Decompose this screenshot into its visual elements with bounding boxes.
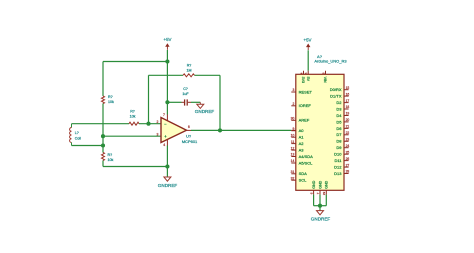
- svg-text:15: 15: [346, 86, 350, 90]
- svg-text:+5V: +5V: [304, 38, 312, 43]
- svg-text:10k: 10k: [130, 115, 136, 119]
- svg-text:10: 10: [291, 133, 295, 137]
- wire gnd left leg: [313, 195, 315, 206]
- svg-text:RESET: RESET: [299, 89, 313, 94]
- svg-text:26: 26: [346, 157, 350, 161]
- pin A2 (11) left: [291, 140, 304, 146]
- pin D8 (23) right: [336, 137, 349, 143]
- svg-text:D10: D10: [334, 152, 342, 157]
- svg-text:20: 20: [346, 118, 350, 122]
- svg-text:GNDREF: GNDREF: [311, 217, 331, 222]
- svg-text:3: 3: [157, 133, 159, 137]
- wire op-amp V- to gnd rail: [166, 146, 168, 167]
- feedback right leg wire down to output: [219, 75, 221, 130]
- svg-text:R?: R?: [108, 95, 113, 99]
- svg-text:21: 21: [346, 125, 350, 129]
- svg-text:4: 4: [163, 143, 165, 147]
- svg-text:23: 23: [346, 137, 350, 141]
- svg-text:10k: 10k: [108, 100, 114, 104]
- svg-text:3V3: 3V3: [301, 77, 305, 83]
- svg-text:GND: GND: [312, 180, 316, 188]
- svg-text:D9: D9: [336, 145, 342, 150]
- wire feedback top left segment: [149, 74, 184, 76]
- svg-text:U?: U?: [186, 134, 192, 139]
- power +5V (arduino): [304, 38, 312, 51]
- wire R to inverting node: [139, 123, 161, 125]
- wire +5V to top rail junction: [166, 50, 168, 62]
- svg-text:11: 11: [291, 140, 295, 144]
- wire feedback top right segment: [195, 74, 221, 76]
- svg-text:22: 22: [346, 131, 350, 135]
- svg-text:Arduino_UNO_R3: Arduino_UNO_R3: [314, 59, 347, 64]
- wire top horizontal to divider: [103, 61, 167, 63]
- pin A4/SDA (13) left: [291, 153, 314, 159]
- svg-text:32: 32: [291, 176, 295, 180]
- wire divider column upper: [102, 62, 104, 97]
- svg-text:MCP601: MCP601: [182, 139, 198, 144]
- pin D5 (20) right: [336, 118, 349, 124]
- junction gnd rail: [165, 164, 169, 168]
- pin AREF (30) left: [291, 117, 310, 123]
- pin 6 (output) stub: [187, 129, 192, 131]
- svg-text:7: 7: [163, 113, 165, 117]
- pin D6 (21) right: [336, 125, 349, 131]
- svg-text:D12: D12: [334, 164, 342, 169]
- feedback left leg wire: [148, 75, 150, 123]
- svg-text:D5: D5: [336, 119, 342, 124]
- svg-text:A0: A0: [299, 128, 305, 133]
- pin A3 (12) left: [291, 146, 305, 152]
- svg-text:+5V: +5V: [164, 37, 172, 42]
- svg-text:A5/SCL: A5/SCL: [299, 160, 314, 165]
- pin D11 (26) right: [334, 157, 349, 163]
- resistor R? 10k (upper divider): [102, 95, 114, 104]
- junction coil bottom: [101, 143, 105, 147]
- pin A0 (9) left: [291, 127, 304, 133]
- pin D9 (24) right: [336, 144, 349, 150]
- svg-text:10k: 10k: [108, 158, 114, 162]
- pin RESET (3) left: [291, 88, 312, 94]
- wire divider middle: [102, 104, 104, 146]
- svg-text:31: 31: [291, 170, 295, 174]
- ground GNDREF (arduino): [311, 211, 331, 222]
- svg-text:12: 12: [291, 146, 295, 150]
- svg-text:VIN: VIN: [323, 77, 327, 83]
- svg-text:27: 27: [346, 163, 350, 167]
- wire divider node to lower resistor: [102, 146, 104, 153]
- wire bottom gnd horizontal: [103, 166, 167, 168]
- IC A? Arduino_UNO_R3 body: [296, 74, 344, 190]
- svg-text:16: 16: [346, 92, 350, 96]
- svg-text:25: 25: [346, 150, 350, 154]
- power +5V (left): [164, 37, 172, 50]
- pin D12 (27) right: [334, 163, 349, 169]
- pin GND (7) bottom: [316, 180, 323, 194]
- pin SDA (31) left: [291, 170, 308, 176]
- wire gnd right leg: [325, 195, 327, 206]
- svg-text:A4/SDA: A4/SDA: [299, 154, 314, 159]
- svg-text:18: 18: [346, 105, 350, 109]
- pin D3 (18) right: [336, 105, 349, 111]
- svg-text:6: 6: [188, 125, 190, 129]
- wire coil top toward R (inverting path): [72, 123, 130, 125]
- svg-text:D1/TX: D1/TX: [330, 94, 342, 99]
- svg-text:5V: 5V: [306, 77, 310, 82]
- node divider mid (junction to op-amp +): [101, 134, 105, 138]
- svg-text:AREF: AREF: [299, 118, 310, 123]
- svg-text:14: 14: [291, 159, 295, 163]
- junction rail / decoupling cap: [165, 100, 169, 104]
- wire lower divider to gnd rail: [102, 161, 104, 167]
- svg-text:R?: R?: [130, 109, 135, 113]
- svg-text:R?: R?: [187, 63, 192, 67]
- wire rail to cap: [167, 101, 181, 103]
- svg-text:D13: D13: [334, 171, 342, 176]
- ground GNDREF (op-amp): [158, 167, 178, 188]
- pin GND (29) bottom: [322, 180, 329, 195]
- svg-text:GNDREF: GNDREF: [195, 109, 215, 114]
- resistor R? 1M (feedback): [183, 63, 195, 77]
- svg-text:28: 28: [346, 170, 350, 174]
- svg-text:A2: A2: [299, 141, 305, 146]
- svg-text:3: 3: [292, 88, 294, 92]
- svg-text:A1: A1: [299, 135, 305, 140]
- pin D1/TX (16) right: [330, 92, 349, 98]
- svg-text:D8: D8: [336, 139, 342, 144]
- pin D0/RX (15) right: [330, 86, 350, 92]
- svg-text:1M: 1M: [187, 69, 192, 73]
- op-amp U1 MCP601: [161, 118, 187, 143]
- pin 3V3 (4) top: [299, 71, 305, 83]
- svg-text:D3: D3: [336, 106, 342, 111]
- svg-text:SCL: SCL: [299, 178, 308, 183]
- svg-text:17: 17: [346, 99, 350, 103]
- capacitor C? 1uF: [182, 87, 192, 106]
- pin A0 wire stub connection: [291, 129, 296, 131]
- wire +5V rail down to op-amp V+: [166, 62, 168, 115]
- ground GNDREF (cap): [195, 102, 215, 114]
- svg-text:19: 19: [346, 112, 350, 116]
- svg-text:30: 30: [291, 117, 295, 121]
- junction top rail: [165, 59, 169, 63]
- pin D2 (17) right: [336, 99, 349, 105]
- pin 4 (V-) stub: [166, 140, 168, 146]
- svg-text:D4: D4: [336, 113, 342, 118]
- svg-text:GND: GND: [325, 180, 329, 188]
- junction gnd bar: [318, 204, 322, 208]
- pin D10 (25) right: [334, 150, 349, 156]
- svg-text:C?: C?: [183, 87, 188, 91]
- svg-text:D2: D2: [336, 100, 342, 105]
- wire gnd bottom bar: [314, 205, 327, 207]
- svg-text:R?: R?: [108, 153, 113, 157]
- wire cap to gnd symbol: [191, 101, 200, 103]
- resistor R? 10k (lower divider): [102, 153, 114, 163]
- inductor L? Coil: [70, 124, 82, 146]
- svg-text:A3: A3: [299, 148, 305, 153]
- junction feedback/output: [218, 128, 222, 132]
- pin GND (6) bottom: [309, 180, 316, 194]
- wire op-amp output to A0: [191, 129, 291, 131]
- node inverting input junction: [146, 122, 150, 126]
- svg-text:24: 24: [346, 144, 350, 148]
- svg-text:Coil: Coil: [75, 137, 81, 141]
- pin D13 (28) right: [334, 170, 349, 176]
- wire coil bottom to divider node: [72, 145, 104, 147]
- svg-text:2: 2: [292, 102, 294, 106]
- svg-text:D11: D11: [334, 158, 342, 163]
- svg-text:1uF: 1uF: [182, 92, 189, 96]
- pin VIN (8) top: [321, 71, 327, 83]
- svg-text:D0/RX: D0/RX: [330, 87, 342, 92]
- wire to op-amp non-inverting input: [103, 135, 161, 137]
- pin 7 (V+) stub: [166, 115, 168, 121]
- svg-text:2: 2: [157, 120, 159, 124]
- svg-text:IOREF: IOREF: [299, 103, 312, 108]
- svg-text:L?: L?: [75, 131, 79, 135]
- pin A5/SCL (14) left: [291, 159, 314, 165]
- svg-text:13: 13: [291, 153, 295, 157]
- svg-text:GND: GND: [318, 180, 322, 188]
- svg-text:D6: D6: [336, 126, 342, 131]
- wire gnd center leg: [319, 195, 321, 211]
- pin SCL (32) left: [291, 176, 308, 182]
- wire +5V to 5V pin: [307, 50, 309, 70]
- svg-text:D7: D7: [336, 132, 342, 137]
- pin D7 (22) right: [336, 131, 349, 137]
- svg-text:SDA: SDA: [299, 171, 308, 176]
- resistor R? 10k (series input): [129, 109, 139, 125]
- pin D4 (19) right: [336, 112, 349, 118]
- pin 5V (5) top: [304, 71, 310, 82]
- svg-text:29: 29: [322, 191, 326, 195]
- pin IOREF (2) left: [291, 102, 311, 108]
- pin A1 (10) left: [291, 133, 305, 139]
- svg-text:GNDREF: GNDREF: [158, 183, 178, 188]
